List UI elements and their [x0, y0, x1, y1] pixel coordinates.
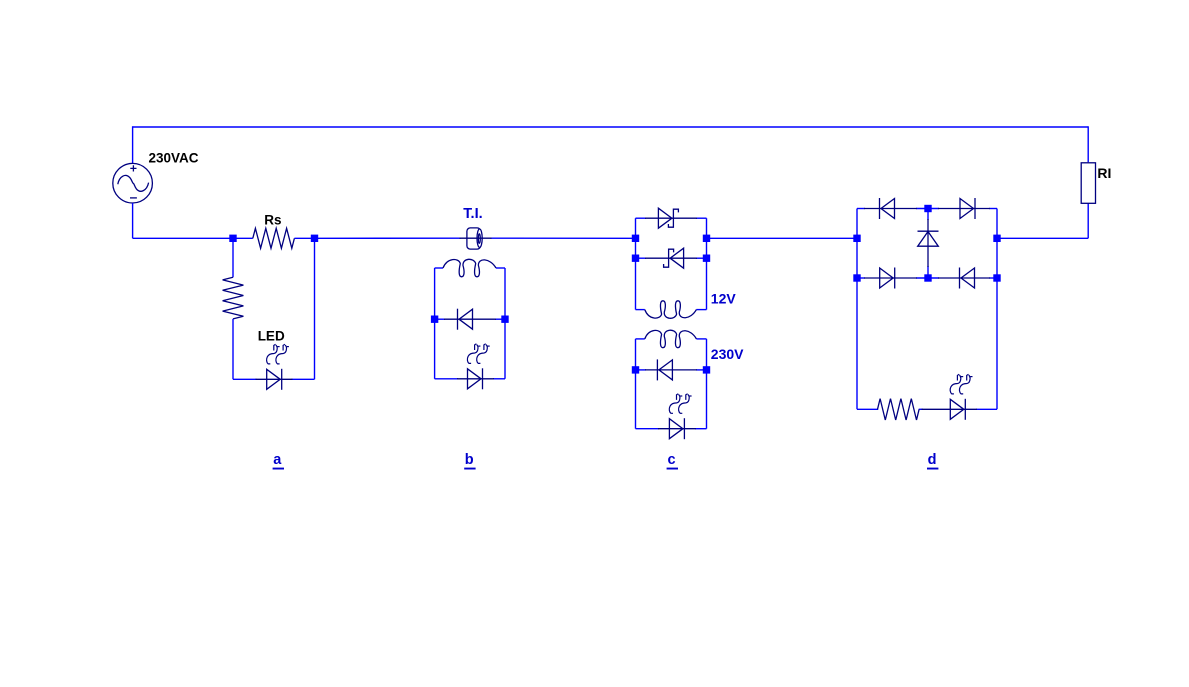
diode b: [444, 318, 496, 320]
node d row2 left: [853, 274, 860, 281]
wire c lower-right vertical: [706, 339, 708, 429]
wire d row2 rail center: [916, 277, 939, 279]
resistor d zigzag: [878, 399, 920, 420]
wire d top rail right stub: [989, 208, 997, 210]
AC source sine wave: [118, 175, 149, 191]
wire RI bottom lead: [1087, 203, 1089, 238]
wire c bottom rail right: [695, 428, 707, 430]
node d main right: [993, 235, 1000, 242]
diode d bottom-right: [938, 277, 990, 279]
svg-text:b: b: [465, 452, 474, 468]
wire source top lead: [132, 126, 134, 164]
wire a bottom rail left: [233, 378, 257, 380]
AC source plus sign: [130, 165, 136, 171]
svg-text:230VAC: 230VAC: [149, 150, 199, 165]
wire b bottom rail right: [493, 378, 505, 380]
wire b left vertical: [434, 268, 436, 379]
svg-text:c: c: [668, 452, 676, 468]
node c row3 left: [632, 366, 639, 373]
wire d right vertical: [996, 209, 998, 410]
node a left: [229, 235, 236, 242]
wire d row2 rail right stub: [989, 277, 997, 279]
wire c upper-right vertical: [706, 218, 708, 309]
resistor a vertical zigzag: [223, 277, 244, 319]
wire b diode row right stub: [495, 318, 505, 320]
wire d left vertical: [856, 209, 858, 410]
node d top center: [924, 205, 931, 212]
wire main rail segment 4: [997, 237, 1088, 239]
wire c top rail left stub: [636, 217, 647, 219]
node a right: [311, 235, 318, 242]
wire c second row right stub: [696, 257, 707, 259]
diode d top-left: [864, 208, 917, 210]
node d row2 right: [993, 274, 1000, 281]
wire c coil230 right stub: [696, 338, 706, 340]
wire RI top lead: [1087, 126, 1089, 162]
wire d bottom rail left: [857, 408, 878, 410]
wire d bottom rail right: [976, 408, 997, 410]
node b left: [431, 316, 438, 323]
current transformer T.I. core outer ellipse: [477, 229, 482, 247]
wire c lower-left vertical: [635, 339, 637, 429]
wire Rs right lead: [294, 237, 314, 239]
node d main left: [853, 235, 860, 242]
wire a left vertical lower: [232, 319, 234, 379]
zener diode c top: [645, 217, 697, 219]
wire d top rail left stub: [857, 208, 865, 210]
wire c diode row left stub: [636, 369, 647, 371]
diode d top-right: [938, 208, 990, 210]
wire d center column bottom: [927, 266, 929, 278]
LED a diode: [256, 378, 293, 380]
wire main rail segment 3: [707, 237, 858, 239]
wire main rail segment 2b: [491, 237, 636, 239]
zener diode c second: [645, 257, 697, 259]
node c row3 right: [703, 366, 710, 373]
wire c diode row right stub: [696, 369, 707, 371]
wire b bottom rail left: [435, 378, 458, 380]
resistor RI box: [1081, 163, 1095, 204]
inductor c 12V winding: [645, 301, 697, 319]
wire b coil right stub: [496, 267, 505, 269]
node c row2 left: [632, 255, 639, 262]
diode d middle: [927, 219, 929, 267]
svg-text:RI: RI: [1097, 165, 1111, 181]
resistor Rs zigzag: [253, 228, 295, 248]
wire b coil left stub: [435, 267, 443, 269]
wire c coil12 right stub: [696, 309, 706, 311]
wire a right vertical: [314, 238, 316, 379]
wire c coil12 left stub: [636, 309, 645, 311]
wire c bottom rail left: [636, 428, 660, 430]
node b right: [501, 316, 508, 323]
inductor b secondary coil: [443, 259, 496, 277]
wire a bottom rail right: [292, 378, 315, 380]
wire d top rail center: [916, 208, 939, 210]
svg-text:a: a: [273, 452, 282, 468]
LED b light rays: [467, 345, 478, 364]
node d row2 center: [924, 274, 931, 281]
LED a light rays: [267, 345, 278, 364]
diode c lower: [645, 369, 697, 371]
svg-text:Rs: Rs: [264, 213, 281, 228]
svg-text:12V: 12V: [711, 290, 737, 306]
wire b diode row left stub: [435, 318, 445, 320]
wire c top rail right stub: [696, 217, 707, 219]
svg-text:d: d: [928, 452, 937, 468]
wire source bottom lead: [132, 203, 134, 238]
wire top rail: [132, 126, 1088, 128]
wire c upper-left vertical: [635, 218, 637, 309]
node c main right: [703, 235, 710, 242]
wire c second row left stub: [636, 257, 647, 259]
LED d diode: [922, 408, 978, 410]
LED d light rays: [950, 375, 961, 394]
node c row2 right: [703, 255, 710, 262]
LED c light rays: [669, 395, 680, 414]
current transformer T.I. body: [467, 228, 481, 249]
wire d row2 rail left stub: [857, 277, 865, 279]
node c main left: [632, 235, 639, 242]
wire through T.I.: [460, 237, 492, 239]
wire main rail segment 1: [133, 237, 233, 239]
AC source minus sign: [130, 197, 137, 199]
wire a left vertical upper: [232, 238, 234, 277]
wire b right vertical: [504, 268, 506, 379]
current transformer T.I. core inner ellipse: [478, 234, 480, 244]
LED b diode: [457, 378, 494, 380]
svg-text:LED: LED: [258, 328, 285, 343]
LED c diode: [658, 428, 696, 430]
svg-text:T.I.: T.I.: [463, 206, 482, 222]
wire d center column top: [927, 209, 929, 221]
wire main rail segment 2: [315, 237, 461, 239]
AC source V1 circle: [113, 163, 153, 203]
wire c coil230 left stub: [636, 338, 645, 340]
wire d bottom rail mid: [919, 408, 923, 410]
diode d bottom-left: [864, 277, 917, 279]
svg-text:230V: 230V: [711, 346, 744, 362]
inductor c 230V winding: [645, 330, 697, 348]
wire Rs left lead: [233, 237, 253, 239]
